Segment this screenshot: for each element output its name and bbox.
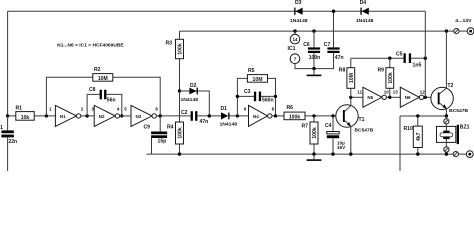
- node R7 bottom / ground junction: [312, 152, 315, 155]
- svg-text:T1: T1: [359, 117, 365, 123]
- resistor R10: [404, 116, 423, 154]
- pin 13: [393, 90, 399, 95]
- svg-text:16V: 16V: [337, 145, 346, 150]
- wire N4 feedback left riser: [237, 78, 247, 116]
- svg-text:56n: 56n: [107, 98, 116, 104]
- svg-text:4k7: 4k7: [416, 132, 422, 141]
- capacitor C5: [396, 51, 425, 68]
- node D1/N4 in junction: [236, 114, 239, 117]
- IC1 power pin 7: [290, 54, 314, 69]
- svg-text:1N4148: 1N4148: [356, 18, 374, 23]
- capacitor C7: [314, 11, 344, 68]
- svg-text:100k: 100k: [178, 43, 184, 54]
- node N2 out junction: [120, 114, 123, 117]
- ground symbol bottom: [307, 154, 322, 161]
- node C6 top junction: [312, 29, 315, 32]
- pin 10: [384, 90, 390, 95]
- svg-text:10: 10: [384, 90, 390, 95]
- wire N4 out to R6: [272, 115, 284, 117]
- resistor R2: [46, 67, 160, 116]
- capacitor C3: [237, 89, 275, 103]
- supply label 4...13V: [455, 18, 472, 24]
- svg-text:R10: R10: [404, 126, 414, 132]
- node D3/D4/C7 junction: [332, 10, 335, 13]
- op-amp U1 note text: [57, 42, 124, 48]
- svg-text:C5: C5: [396, 51, 403, 57]
- wire N2 out to N3 in: [120, 115, 131, 117]
- svg-text:R3: R3: [166, 40, 173, 46]
- node supply / T2 collector junction: [445, 29, 448, 32]
- svg-text:D1: D1: [221, 106, 228, 112]
- node R1/C1 junction: [6, 114, 9, 117]
- pin 4: [117, 106, 120, 111]
- wire ground rail bottom: [147, 153, 454, 155]
- svg-text:10M: 10M: [253, 77, 263, 83]
- svg-text:10M: 10M: [349, 73, 355, 83]
- transistor T2: [431, 31, 469, 116]
- svg-text:R4: R4: [167, 124, 174, 130]
- inverter N4: [249, 105, 272, 126]
- svg-text:C6: C6: [303, 42, 310, 48]
- svg-text:N2: N2: [99, 114, 105, 119]
- resistor R3: [166, 31, 184, 91]
- svg-text:R9: R9: [378, 67, 385, 73]
- pin 6: [155, 106, 158, 111]
- node C8 left junction: [85, 114, 88, 117]
- node T2 emitter junction: [445, 114, 448, 117]
- inverter N6: [400, 87, 424, 107]
- svg-text:15p: 15p: [158, 138, 167, 144]
- svg-text:N1: N1: [60, 114, 66, 119]
- transistor T1: [336, 97, 374, 154]
- wire supply rail: [180, 30, 454, 32]
- svg-text:R5: R5: [248, 68, 255, 74]
- svg-text:12: 12: [420, 90, 426, 95]
- svg-text:R1: R1: [16, 106, 23, 112]
- buzzer BZ1: [437, 125, 470, 145]
- pin 12: [420, 90, 426, 95]
- wire N5 input: [351, 96, 363, 98]
- node R10 bottom junction: [416, 152, 419, 155]
- IC1 power pin 14: [290, 31, 300, 44]
- connector battery plus: [454, 29, 467, 34]
- wire top rail (D3/D4 net): [8, 10, 426, 12]
- pin 9: [244, 106, 247, 111]
- pin 5: [124, 106, 127, 111]
- svg-text:R7: R7: [302, 124, 309, 130]
- capacitor C2: [181, 110, 221, 125]
- svg-text:N1...N6 = IC1 = HCF4069UBE: N1...N6 = IC1 = HCF4069UBE: [57, 42, 124, 48]
- svg-text:C9: C9: [144, 125, 151, 131]
- resistor R7: [302, 116, 319, 154]
- node R4 ground junction: [178, 152, 181, 155]
- svg-text:C1: C1: [0, 125, 3, 131]
- inverter N1: [55, 105, 80, 126]
- node T1 collector / N5 in junction: [349, 96, 352, 99]
- svg-text:100k: 100k: [312, 127, 318, 138]
- pin 11: [357, 90, 362, 95]
- svg-text:N3: N3: [136, 114, 142, 119]
- svg-text:BZ1: BZ1: [460, 125, 470, 131]
- node C6 bottom ground junction: [312, 67, 315, 70]
- wire N3 out to C2: [156, 115, 190, 117]
- svg-text:1N4148: 1N4148: [181, 97, 199, 102]
- pin 1: [49, 106, 52, 111]
- svg-text:14: 14: [292, 37, 298, 42]
- pin 3: [91, 106, 94, 111]
- node C2/D2/D1 junction: [208, 114, 211, 117]
- svg-text:22n: 22n: [8, 139, 17, 145]
- node N6 out junction: [424, 96, 427, 99]
- inverter N5: [363, 87, 387, 107]
- node buzzer ground junction: [445, 152, 448, 155]
- node R3/R4/D2 junction: [178, 89, 181, 92]
- svg-text:47n: 47n: [200, 119, 209, 125]
- svg-text:R8: R8: [339, 67, 346, 73]
- pin 8: [272, 106, 275, 111]
- node R2/N1 input junction: [45, 114, 48, 117]
- wire oscillator2 top: [351, 57, 404, 59]
- svg-text:1N4148: 1N4148: [290, 18, 308, 23]
- wire N6 out vertical to top rail: [424, 11, 426, 97]
- svg-text:10k: 10k: [21, 115, 30, 121]
- svg-text:R6: R6: [287, 105, 294, 111]
- svg-text:11: 11: [357, 90, 362, 95]
- capacitor C8: [87, 87, 122, 116]
- wire emitter row: [400, 116, 446, 171]
- svg-text:C3: C3: [244, 89, 251, 95]
- connector battery minus: [453, 152, 466, 157]
- node R10 top junction: [416, 114, 419, 117]
- node R7 top junction: [312, 114, 315, 117]
- node C3 left: [236, 95, 239, 98]
- node N3 out junction: [159, 114, 162, 117]
- svg-text:13: 13: [393, 90, 399, 95]
- resistor R1: [8, 106, 56, 121]
- pin 2: [81, 106, 84, 111]
- svg-text:1n5: 1n5: [413, 62, 422, 68]
- svg-text:D2: D2: [190, 83, 197, 89]
- resistor R9: [378, 58, 394, 97]
- wire N1 out to N2 in: [81, 115, 94, 117]
- node N5 out junction: [388, 96, 391, 99]
- svg-text:IC1: IC1: [288, 46, 296, 52]
- capacitor C6: [303, 31, 320, 69]
- capacitor C9: [144, 116, 168, 154]
- svg-text:4...13V: 4...13V: [455, 18, 472, 24]
- svg-text:R2: R2: [94, 67, 101, 73]
- wire left vertical from top rail to R1/C1 node: [7, 11, 9, 116]
- node C4 bottom junction: [331, 152, 334, 155]
- svg-text:C2: C2: [181, 110, 188, 116]
- terminal battery minus: [466, 151, 473, 158]
- resistor R5: [247, 68, 275, 116]
- svg-text:C4: C4: [325, 123, 332, 129]
- svg-text:N4: N4: [253, 114, 259, 119]
- diode D1: [220, 106, 249, 127]
- terminal battery plus: [467, 28, 474, 35]
- svg-text:C8: C8: [89, 87, 96, 93]
- svg-text:N5: N5: [367, 95, 373, 100]
- svg-text:N6: N6: [405, 95, 411, 100]
- node C5 right junction: [424, 57, 427, 60]
- svg-text:D3: D3: [295, 0, 302, 6]
- svg-text:560n: 560n: [262, 97, 274, 103]
- connector bottom of buzzer: [444, 142, 449, 154]
- node T1 emitter ground junction: [349, 152, 352, 155]
- capacitor C4 electrolytic: [325, 116, 346, 154]
- svg-text:100n: 100n: [309, 55, 321, 61]
- IC1 label: [288, 46, 296, 52]
- inverter N3: [131, 105, 156, 126]
- capacitor C1: [0, 116, 17, 171]
- node R9 top junction: [388, 57, 391, 60]
- svg-text:1N4148: 1N4148: [220, 122, 238, 127]
- connector top of buzzer: [444, 116, 449, 126]
- wire N6 out to T2 base: [424, 96, 438, 98]
- resistor R8: [339, 58, 355, 97]
- diode D4: [356, 0, 374, 23]
- wire N5 out to N6 in: [386, 96, 400, 98]
- svg-text:10M: 10M: [98, 76, 108, 82]
- svg-text:100k: 100k: [178, 127, 184, 138]
- resistor R6: [284, 105, 343, 120]
- svg-text:BC547B: BC547B: [355, 128, 375, 133]
- ground symbol middle: [307, 69, 322, 77]
- svg-text:D4: D4: [360, 0, 367, 6]
- diode D2: [180, 83, 210, 116]
- node C3 right: [274, 95, 277, 98]
- diode D3: [290, 0, 308, 23]
- node N4 out junction: [274, 114, 277, 117]
- inverter N2: [94, 105, 119, 126]
- resistor R4: [167, 91, 184, 154]
- svg-text:100k: 100k: [289, 114, 300, 120]
- svg-text:47n: 47n: [335, 55, 344, 61]
- node IC1 pin14 junction: [293, 29, 296, 32]
- svg-text:BC547B: BC547B: [449, 108, 469, 113]
- node C4 top junction: [331, 114, 334, 117]
- svg-text:C7: C7: [324, 42, 331, 48]
- svg-text:T2: T2: [447, 83, 453, 89]
- svg-text:100k: 100k: [388, 72, 394, 83]
